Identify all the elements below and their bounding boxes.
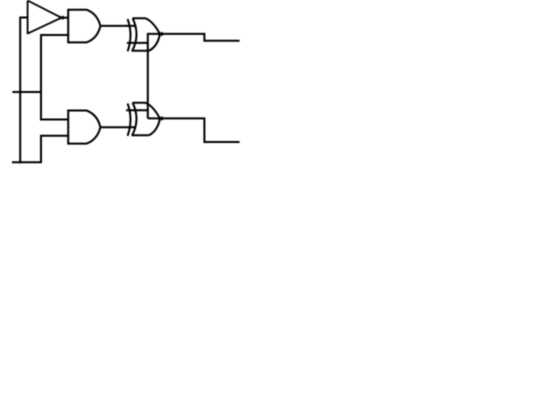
wire U1 output stub bbox=[62, 17, 69, 19]
xor-gate U4 bbox=[128, 18, 160, 51]
wire U5 upper input bbox=[126, 109, 149, 111]
wire to U3 upper input bbox=[40, 119, 68, 121]
wire left vertical bus bbox=[19, 17, 21, 164]
xor-gate U5 bbox=[128, 103, 160, 136]
wire input A bottom horizontal bbox=[12, 161, 42, 163]
inverter U1 bbox=[28, 1, 62, 35]
wire U3 output to U5 bbox=[101, 126, 136, 128]
node tip of U4 bbox=[159, 32, 163, 35]
wire input B horizontal bbox=[12, 91, 41, 93]
wire B vertical riser bbox=[40, 36, 42, 120]
wire to U2 lower input bbox=[40, 34, 68, 36]
node tip of U5 bbox=[159, 117, 163, 120]
wire output S2 stepped bbox=[148, 118, 240, 142]
wire output S1 stepped bbox=[147, 34, 240, 41]
wire U2 output to U4 bbox=[101, 25, 137, 27]
wire input A stub bbox=[20, 17, 27, 19]
and-gate U2 bbox=[68, 10, 100, 43]
wire A vertical riser bbox=[40, 135, 42, 163]
wire U4 lower input bbox=[127, 42, 149, 44]
wire vertical link U4 to U5 bbox=[147, 34, 149, 119]
wire to U3 lower input bbox=[40, 135, 68, 137]
and-gate U3 bbox=[68, 111, 100, 144]
node apex of U1 bbox=[59, 16, 63, 19]
